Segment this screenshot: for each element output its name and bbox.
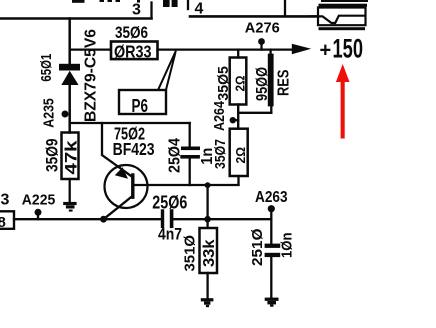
- svg-text:2Ω: 2Ω: [233, 76, 248, 92]
- svg-text:1Øn: 1Øn: [279, 233, 296, 259]
- svg-text:150: 150: [333, 34, 364, 64]
- svg-text:25Ø6: 25Ø6: [152, 193, 187, 213]
- svg-text:A263: A263: [255, 189, 288, 206]
- svg-text:3: 3: [132, 2, 141, 19]
- svg-text:ØR33: ØR33: [114, 41, 152, 61]
- svg-text:35Ø7: 35Ø7: [212, 139, 229, 169]
- svg-text:P6: P6: [132, 95, 149, 116]
- svg-text:BF423: BF423: [113, 139, 155, 159]
- svg-text:35Ø9: 35Ø9: [43, 139, 62, 173]
- svg-text:8: 8: [0, 214, 6, 231]
- svg-text:+: +: [320, 40, 332, 62]
- svg-text:47k: 47k: [63, 139, 81, 174]
- svg-text:A235: A235: [40, 98, 57, 128]
- svg-text:A225: A225: [22, 191, 56, 208]
- svg-text:35Ø6: 35Ø6: [115, 23, 148, 42]
- svg-text:251Ø: 251Ø: [249, 228, 266, 266]
- svg-text:A264: A264: [211, 100, 228, 131]
- svg-text:A276: A276: [245, 19, 280, 36]
- svg-text:4: 4: [195, 1, 204, 18]
- svg-text:25Ø4: 25Ø4: [167, 138, 184, 173]
- svg-text:33k: 33k: [201, 239, 218, 267]
- svg-text:RES: RES: [276, 69, 293, 96]
- svg-text:35Ø5: 35Ø5: [215, 66, 232, 101]
- svg-text:3: 3: [1, 191, 10, 208]
- svg-text:351Ø: 351Ø: [182, 235, 199, 272]
- svg-text:BZX79-C5V6: BZX79-C5V6: [83, 29, 100, 122]
- svg-text:65Ø1: 65Ø1: [38, 54, 55, 82]
- svg-text:95ØØ: 95ØØ: [254, 67, 271, 101]
- svg-text:4n7: 4n7: [158, 226, 182, 244]
- svg-text:2Ω: 2Ω: [233, 147, 248, 164]
